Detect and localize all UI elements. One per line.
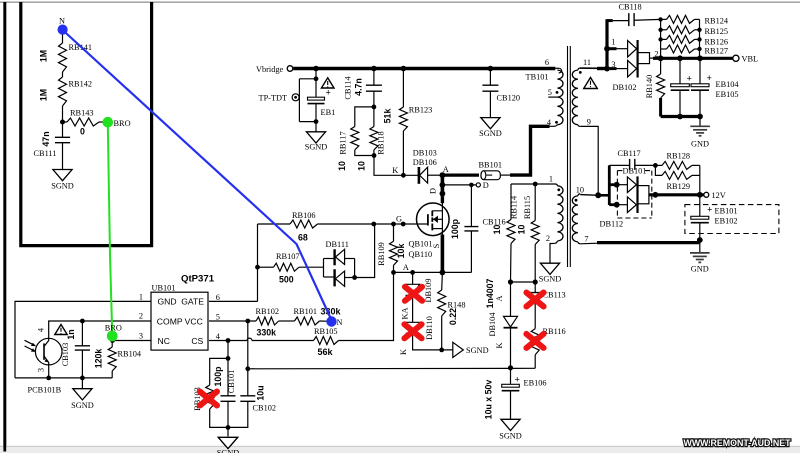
svg-text:CB101: CB101: [227, 370, 236, 394]
svg-text:5: 5: [548, 88, 552, 97]
svg-text:RB118: RB118: [377, 131, 386, 154]
svg-text:K: K: [495, 343, 504, 349]
svg-text:SGND: SGND: [305, 143, 328, 152]
svg-text:330k: 330k: [257, 328, 277, 338]
node RB109 bottom: [391, 270, 396, 275]
green node BRO at UB101: [107, 331, 118, 342]
wire pin10 to DB101 (thick bracket): [608, 165, 611, 205]
svg-text:+: +: [707, 74, 712, 84]
resistor RB116 (crossed): [531, 329, 539, 355]
rectifier DB101 dashed box: [617, 171, 651, 218]
svg-text:DB112: DB112: [600, 220, 624, 229]
wire pin5 VCC: [209, 320, 256, 322]
svg-text:10: 10: [517, 225, 527, 235]
wire pin4 CS: [209, 340, 247, 342]
polarity dot pin4: [555, 121, 558, 124]
node bus EB105: [697, 55, 703, 61]
svg-text:1: 1: [549, 175, 553, 184]
svg-text:11: 11: [583, 58, 591, 67]
svg-text:SGND: SGND: [479, 129, 502, 138]
node DB102 pin1: [604, 46, 610, 52]
crossover hop on CS wire: [247, 338, 252, 340]
svg-text:QB101: QB101: [409, 240, 433, 249]
node on bus at CB120: [488, 66, 494, 72]
wire RB124-127 right tie: [699, 19, 701, 58]
ground SGND below CB111: [53, 170, 72, 181]
svg-text:120k: 120k: [94, 349, 104, 369]
svg-text:D: D: [429, 188, 438, 194]
svg-text:CB117: CB117: [618, 149, 641, 158]
svg-text:SGND: SGND: [466, 346, 489, 355]
svg-text:TB101: TB101: [526, 73, 549, 82]
svg-text:5: 5: [216, 312, 220, 321]
svg-text:100p: 100p: [213, 366, 223, 387]
svg-text:CB111: CB111: [34, 149, 57, 158]
svg-text:S: S: [432, 243, 441, 248]
svg-text:RB127: RB127: [705, 47, 729, 56]
resistor RB109: [393, 224, 395, 241]
resistor RB101: [295, 317, 320, 325]
svg-text:DB104: DB104: [488, 312, 497, 337]
svg-text:6: 6: [545, 58, 549, 67]
resistor RB142: [59, 77, 67, 106]
svg-text:500: 500: [279, 275, 294, 285]
node pin5/CB102 column: [245, 319, 250, 324]
svg-text:VCC: VCC: [185, 316, 203, 326]
wire pin4 down: [227, 341, 229, 396]
blue annotation line N to RB101: [63, 30, 332, 320]
TB101 secondary winding 10-7: [578, 194, 580, 196]
red X over DB109: [405, 287, 422, 301]
svg-text:10u: 10u: [255, 385, 265, 400]
svg-text:SGND: SGND: [71, 401, 94, 410]
wire RB141-RB142: [62, 72, 64, 77]
node CB101 bottom: [226, 425, 231, 430]
ground SGND below CB101 over strip: [218, 437, 237, 448]
svg-text:DB106: DB106: [413, 158, 437, 167]
svg-text:1M: 1M: [39, 50, 49, 62]
blue node N: [58, 25, 68, 35]
svg-text:GND: GND: [691, 140, 709, 149]
svg-text:DB110: DB110: [425, 316, 434, 340]
resistor RB104: [110, 338, 115, 343]
node pin4 column: [226, 338, 231, 343]
long wire to DB104/EB106: [248, 367, 535, 370]
warning triangle near DB102: [584, 78, 598, 89]
wire RB106 left vertical to pin6: [257, 224, 259, 301]
wire DB111 to gate: [355, 224, 375, 278]
resistor RB123: [402, 69, 404, 108]
wire MOSFET source thick: [441, 235, 445, 273]
wire RB124-127 left tie: [660, 19, 662, 58]
top page border line: [0, 1, 800, 3]
svg-text:3: 3: [611, 60, 615, 69]
bottom rail: [15, 377, 112, 379]
capacitor CB103: [81, 321, 83, 346]
svg-text:2: 2: [139, 312, 143, 321]
capacitor CB102: [247, 321, 249, 396]
tie wire DB104/CB113 columns: [511, 281, 536, 283]
bottom grey strip overlay: [0, 447, 800, 453]
wire RB105 to source row: [339, 272, 394, 340]
svg-text:1n4007: 1n4007: [485, 278, 495, 308]
junction CB114 bottom: [372, 105, 377, 110]
svg-text:NC: NC: [158, 336, 170, 346]
wire TP-TDT bracket to EB1: [298, 96, 301, 98]
svg-text:+: +: [326, 89, 331, 99]
svg-text:DB109: DB109: [424, 279, 433, 303]
junction RB117/RB118 bottom: [372, 153, 377, 158]
svg-text:D: D: [483, 181, 489, 190]
node CB103 on rail: [80, 376, 85, 381]
node DB109 top: [410, 270, 415, 275]
bottom grey strip: [0, 447, 800, 453]
svg-text:SGND: SGND: [217, 449, 240, 454]
wire BB101 to TB101 pin4 (thick): [500, 174, 511, 176]
svg-text:0: 0: [80, 127, 85, 137]
svg-text:QB110: QB110: [409, 250, 433, 259]
svg-text:N: N: [59, 17, 65, 26]
resistor RB106: [258, 223, 291, 225]
svg-text:KA: KA: [400, 308, 409, 320]
diode DB110: [406, 322, 420, 333]
svg-text:RB107: RB107: [276, 252, 300, 261]
svg-text:TP-TDT: TP-TDT: [259, 94, 288, 103]
capacitor CB101: [221, 396, 236, 402]
resistor RB126: [661, 38, 667, 40]
polarity dot pin10: [575, 199, 578, 202]
svg-text:RB140: RB140: [645, 75, 654, 99]
svg-text:47n: 47n: [41, 131, 51, 146]
svg-text:GATE: GATE: [181, 297, 204, 307]
svg-text:RB106: RB106: [292, 211, 316, 220]
node bus RB140: [658, 55, 664, 61]
svg-text:+: +: [687, 75, 692, 85]
node A thick bar at MOSFET drain: [441, 173, 445, 197]
resistor RB125: [661, 29, 667, 31]
svg-text:68: 68: [298, 233, 308, 243]
svg-text:BB101: BB101: [479, 161, 503, 170]
resistor RB114: [510, 184, 512, 220]
diode DB109: [412, 272, 414, 284]
svg-text:GND: GND: [691, 265, 709, 274]
TB101 secondary winding 11-9: [578, 68, 580, 70]
svg-text:RB124: RB124: [705, 17, 729, 26]
capacitor CB116: [470, 185, 472, 227]
resistor RB105: [314, 337, 339, 345]
svg-text:RB126: RB126: [705, 38, 729, 47]
svg-text:12V: 12V: [712, 191, 726, 200]
enclosure box around N input section: [21, 2, 152, 246]
svg-text:EB1: EB1: [321, 108, 336, 117]
wire pin7 (thick): [580, 242, 598, 245]
svg-text:1n: 1n: [66, 329, 76, 339]
svg-text:CB120: CB120: [497, 94, 521, 103]
polarity dot pin1: [557, 188, 560, 191]
svg-text:CB102: CB102: [253, 404, 277, 413]
blue node at RB101 330k: [326, 316, 336, 326]
svg-text:QtP371: QtP371: [181, 274, 215, 285]
terminal VBL: [733, 55, 739, 61]
ground SGND sideways: [453, 342, 464, 357]
red X over RB116: [526, 334, 543, 348]
svg-text:DB111: DB111: [326, 240, 349, 249]
ground SGND below EB106: [501, 419, 520, 430]
junction at RB143/CB111: [60, 120, 65, 125]
capacitor EB105 (electrolytic): [699, 58, 701, 84]
node DB104/EB106: [508, 365, 513, 370]
rectifier DB101 diodes: [617, 184, 628, 186]
resistor RB129: [655, 165, 662, 175]
svg-text:SGND: SGND: [539, 275, 562, 284]
svg-text:DB101: DB101: [623, 167, 647, 176]
node CB103 top: [80, 319, 85, 324]
red X over RB103: [200, 392, 217, 406]
svg-text:SGND: SGND: [499, 432, 522, 441]
capacitor EB106 (electrolytic): [510, 368, 512, 385]
light arrows into PCB101B: [25, 340, 35, 351]
svg-text:BRO: BRO: [114, 119, 131, 128]
ground SGND below CB120: [481, 118, 500, 129]
svg-text:0.22: 0.22: [448, 308, 458, 325]
wire pin2 to SGND: [550, 244, 551, 264]
svg-text:10u x 50v: 10u x 50v: [484, 380, 494, 420]
resistor RB140: [660, 58, 662, 74]
svg-text:A: A: [443, 165, 449, 174]
svg-text:10: 10: [357, 161, 367, 171]
svg-text:EB105: EB105: [716, 90, 739, 99]
svg-text:10k: 10k: [396, 244, 406, 259]
wire RB129 tie down to 12V: [699, 165, 701, 194]
ground SGND below pin2: [540, 263, 559, 274]
ground SGND below opto: [81, 378, 83, 389]
node EB1 top: [314, 76, 319, 81]
svg-text:EB104: EB104: [716, 80, 740, 89]
svg-text:10: 10: [337, 161, 347, 171]
left page border over strip: [3, 2, 6, 452]
wire pin3 stub: [607, 67, 617, 70]
red X over CB113: [526, 293, 543, 307]
svg-text:3: 3: [36, 368, 45, 372]
resistor RB124: [661, 18, 667, 20]
capacitor EB104 (electrolytic): [679, 58, 681, 84]
resistor RB117: [355, 107, 374, 127]
svg-text:N: N: [337, 318, 343, 327]
svg-text:RB125: RB125: [705, 27, 729, 36]
node gate/RB109: [391, 222, 396, 227]
polarity dot pin11: [579, 71, 582, 74]
capacitor EB101/EB102 dashed box: [685, 205, 779, 234]
svg-text:1M: 1M: [39, 89, 49, 101]
resistor R148: [441, 272, 444, 290]
svg-text:K: K: [399, 349, 408, 355]
svg-text:EB106: EB106: [524, 379, 547, 388]
polarity dot pin5: [556, 91, 559, 94]
svg-text:RB128: RB128: [667, 152, 691, 161]
warning triangle near opto: [55, 325, 67, 335]
wire pin9 down to pin10 node: [580, 126, 598, 195]
svg-text:330k: 330k: [321, 307, 342, 317]
wire pin11 to DB102 (thick): [580, 67, 607, 69]
wire CB118 to pin11 node (thick): [605, 19, 608, 68]
optocoupler PCB101B: [35, 338, 62, 365]
svg-text:RB114: RB114: [509, 195, 518, 219]
svg-text:3: 3: [139, 332, 143, 341]
svg-text:RB104: RB104: [118, 350, 142, 359]
svg-text:1: 1: [611, 38, 615, 47]
svg-text:10: 10: [492, 225, 502, 235]
resistor RB128: [655, 164, 662, 166]
TB101 aux winding 1-2: [511, 183, 556, 185]
node on bus at RB123: [401, 66, 407, 72]
resistor RB102: [256, 317, 279, 325]
wire RB102-RB101: [279, 320, 295, 322]
svg-text:4.7n: 4.7n: [354, 78, 364, 96]
node MOSFET source: [440, 270, 446, 276]
transistor QB101/QB110 MOSFET: [417, 203, 450, 236]
resistor RB115: [534, 184, 536, 221]
svg-text:RB129: RB129: [667, 182, 691, 191]
node long wire takeoff: [245, 366, 250, 371]
svg-text:CB114: CB114: [344, 76, 353, 100]
svg-text:2: 2: [546, 234, 550, 243]
resistor RB107: [258, 266, 274, 268]
terminal 12V: [704, 192, 709, 197]
svg-text:+: +: [515, 376, 520, 386]
ground SGND below EB1: [306, 132, 325, 143]
resistor RB143: [67, 118, 99, 126]
capacitor CB113 (crossed): [534, 282, 536, 293]
node gate dot: [401, 222, 406, 227]
svg-text:+: +: [707, 206, 712, 216]
svg-text:K: K: [392, 166, 398, 175]
resistor RB103 (crossed): [210, 358, 228, 385]
node CB117/RB128: [653, 163, 658, 168]
wire source node row A: [394, 271, 472, 273]
svg-text:51k: 51k: [383, 109, 393, 124]
svg-text:RB109: RB109: [377, 242, 386, 266]
svg-text:EB101: EB101: [715, 207, 738, 216]
svg-text:RB105: RB105: [314, 327, 338, 336]
svg-text:WWW.REMONT-AUD.NET: WWW.REMONT-AUD.NET: [684, 437, 791, 448]
node RB107 branch: [255, 265, 260, 270]
capacitor EB101 (electrolytic): [699, 195, 701, 217]
wire pin10: [580, 194, 598, 197]
wire pin1 stub: [607, 47, 617, 50]
gate wire: [318, 223, 428, 225]
ground SGND below CB101: [218, 437, 237, 448]
transformer core: [568, 46, 571, 267]
svg-text:RB123: RB123: [409, 106, 433, 115]
svg-text:UB101: UB101: [152, 284, 176, 293]
svg-text:PCB101B: PCB101B: [28, 386, 62, 395]
svg-text:VBL: VBL: [742, 55, 759, 64]
terminal D with open circle: [442, 184, 476, 186]
svg-text:CB118: CB118: [619, 3, 642, 12]
wire RB142 to junction: [62, 106, 64, 122]
capacitor EB1 (electrolytic): [315, 69, 317, 98]
svg-text:RB115: RB115: [523, 196, 532, 219]
wire 12V output (thick): [649, 193, 704, 196]
node on bus at EB1: [313, 66, 319, 72]
svg-text:DB103: DB103: [413, 149, 437, 158]
svg-text:56k: 56k: [318, 347, 334, 357]
wire pin3 to BRO node: [112, 340, 151, 342]
svg-text:A: A: [495, 296, 504, 302]
svg-text:CS: CS: [191, 336, 203, 346]
svg-text:CB103: CB103: [61, 343, 70, 367]
capacitor CB111: [62, 122, 64, 137]
svg-text:A: A: [403, 263, 409, 272]
warning triangle near EB1: [321, 78, 334, 88]
svg-text:SGND: SGND: [51, 182, 74, 191]
svg-text:G: G: [396, 215, 402, 224]
svg-text:10: 10: [576, 185, 584, 194]
wire N to RB141: [62, 30, 64, 43]
svg-text:RB143: RB143: [70, 109, 94, 118]
node pin10 junction: [595, 192, 601, 198]
svg-text:100p: 100p: [450, 218, 460, 239]
wire VBL ground bus (thick): [661, 115, 702, 118]
wire DB110 to SGND row: [413, 334, 453, 350]
svg-text:1: 1: [139, 292, 143, 301]
svg-text:BRO: BRO: [105, 324, 122, 333]
wire pin2 COMP to optocoupler: [49, 321, 151, 339]
wire VBL bus (thick): [653, 57, 733, 60]
resistor RB127: [661, 48, 667, 50]
svg-text:9: 9: [587, 118, 591, 127]
node DB102 pin3/pin11: [604, 66, 610, 72]
svg-text:RB102: RB102: [256, 307, 280, 316]
node bus EB104: [677, 55, 683, 61]
wire pin1 GND to left rail: [15, 301, 151, 378]
node K junction: [401, 173, 406, 178]
TB101 primary winding 6-5-4: [550, 67, 559, 69]
green node BRO top: [103, 117, 114, 128]
capacitor CB120: [489, 69, 491, 86]
svg-text:DB102: DB102: [613, 83, 637, 92]
node EB1 bottom: [314, 119, 319, 124]
red X over DB110: [404, 324, 421, 338]
green annotation line BRO: [108, 124, 112, 333]
wire DB109-DB110: [412, 296, 414, 323]
svg-text:GND: GND: [158, 297, 177, 307]
resistor RB141: [59, 43, 67, 72]
node on bus at CB114: [371, 66, 377, 72]
wire pin6 GATE up to RB107 node: [209, 300, 258, 302]
svg-text:RB101: RB101: [294, 307, 318, 316]
IC UB101 QtP371: [151, 292, 208, 350]
wire to K node: [374, 156, 419, 176]
svg-text:Vbridge: Vbridge: [256, 65, 284, 74]
svg-text:COMP: COMP: [157, 316, 183, 326]
ground GND below EB105: [699, 117, 701, 127]
node opto emitter on rail: [46, 376, 51, 381]
node R148 bottom: [439, 348, 444, 353]
node RB115 top: [533, 182, 538, 187]
node RB103 branch: [226, 356, 231, 361]
node pin7/EB101: [697, 237, 703, 243]
svg-text:RB117: RB117: [339, 131, 348, 154]
svg-text:EB102: EB102: [715, 217, 738, 226]
svg-text:RB142: RB142: [69, 80, 93, 89]
ground GND below EB101: [699, 242, 701, 253]
resistor RB118: [373, 107, 375, 127]
node gate/DB111: [371, 222, 376, 227]
wire Vbridge bus (thick): [293, 67, 555, 70]
capacitor CB114: [373, 69, 375, 86]
left page border: [3, 2, 6, 452]
